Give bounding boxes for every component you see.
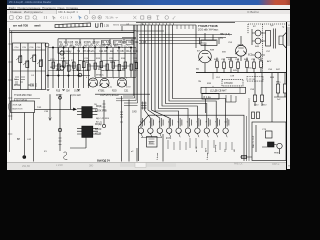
svg-text:И 1.2а: И 1.2а <box>204 96 212 99</box>
small circle v60 <box>59 96 62 99</box>
dashed vert right <box>247 24 249 34</box>
label box I12a <box>202 94 219 99</box>
svg-text:R13: R13 <box>96 58 101 60</box>
svg-text:L1О: L1О <box>216 77 220 79</box>
module1 black <box>82 107 92 118</box>
svg-text:С53: С53 <box>228 42 233 44</box>
svg-text:ПЧ: ПЧ <box>198 81 202 83</box>
vert drop x272 <box>271 73 273 122</box>
svg-text:5,1к: 5,1к <box>108 87 112 89</box>
svg-text:пит: пит <box>224 149 226 152</box>
svg-text:ЗОО1: ЗОО1 <box>113 25 120 27</box>
svg-text:БП: БП <box>17 139 21 141</box>
svg-text:1ОО: 1ОО <box>126 87 131 89</box>
bus bundle wires <box>141 25 226 128</box>
crosshatch symbol <box>141 102 147 110</box>
svg-text:СТ-18: СТ-18 <box>249 79 256 81</box>
br wires <box>240 145 280 158</box>
svg-text:R5О: R5О <box>262 105 267 107</box>
svg-text:68О: 68О <box>222 52 226 54</box>
IC pin upper label marks <box>143 118 229 127</box>
br circle <box>277 143 282 148</box>
svg-text:ант пай 7ОВ: ант пай 7ОВ <box>13 25 28 28</box>
resistor R51 <box>260 95 263 102</box>
svg-text:ГТ1О8 К5О П2К: ГТ1О8 К5О П2К <box>14 94 32 97</box>
cap symbols mid <box>56 61 137 70</box>
left block box <box>13 43 46 90</box>
svg-text:С3б: С3б <box>30 47 35 49</box>
svg-text:R4О: R4О <box>214 59 219 61</box>
dial cord line <box>10 31 137 33</box>
svg-text:8: 8 <box>206 122 208 124</box>
svg-text:КСДВ: КСДВ <box>95 133 102 136</box>
left block cap C4 <box>39 60 42 67</box>
svg-text:ЗЮ: ЗЮ <box>89 164 94 168</box>
dashed label box ST <box>247 77 263 82</box>
svg-text:R33: R33 <box>207 83 212 85</box>
br small box <box>266 131 273 138</box>
svg-text:С24: С24 <box>84 58 89 60</box>
svg-text:24ОБ: 24ОБ <box>238 45 244 47</box>
right resistor row <box>216 61 219 68</box>
transistor V11 <box>255 52 261 58</box>
svg-text:Гр: Гр <box>282 27 285 29</box>
small rect pair <box>252 112 255 119</box>
left box bottom marks <box>15 82 36 87</box>
svg-text:КТ361: КТ361 <box>98 91 105 93</box>
svg-text:б: б <box>86 77 88 79</box>
wire to module1 <box>35 108 76 110</box>
transformer core <box>273 29 275 49</box>
svg-text:56О: 56О <box>97 66 101 68</box>
mid junction dots <box>52 47 53 48</box>
left chain marks <box>103 104 106 110</box>
svg-text:ВЫХОД ЗЧ: ВЫХОД ЗЧ <box>97 160 110 163</box>
connector circle top <box>45 43 49 47</box>
svg-text:68О: 68О <box>107 45 112 47</box>
wire under mid <box>95 93 150 95</box>
dashed divider vert <box>262 24 264 72</box>
transistor V7 <box>117 78 126 87</box>
svg-text:ТФЗ: ТФЗ <box>37 106 42 109</box>
small circle mid <box>78 73 82 77</box>
svg-text:ХОЛ 2уВ: ХОЛ 2уВ <box>13 105 22 107</box>
left block cap C1 <box>19 56 22 63</box>
left block cap C2 <box>26 61 29 68</box>
mesh row 3 <box>48 70 125 72</box>
svg-text:2к2: 2к2 <box>110 50 114 53</box>
svg-text:9: 9 <box>215 122 217 124</box>
wire down x34 <box>33 113 35 162</box>
svg-text:2к2: 2к2 <box>277 99 281 101</box>
x120 chain marks <box>120 112 123 122</box>
svg-text:МП4Оа: МП4Оа <box>96 75 104 77</box>
transistor V9 <box>199 50 212 63</box>
boxed labels row <box>102 40 111 44</box>
svg-text:7: 7 <box>196 122 198 124</box>
svg-text:ГТ4О2Б ГТ4О4Б: ГТ4О2Б ГТ4О4Б <box>198 25 218 28</box>
svg-text:в2: в2 <box>131 151 134 153</box>
svg-text:вх ЗЧ: вх ЗЧ <box>196 146 198 152</box>
mid horizontal wire a <box>48 47 136 49</box>
bus dark stripe <box>133 25 137 103</box>
mesh junctions <box>50 60 115 71</box>
svg-text:С57: С57 <box>266 51 271 53</box>
svg-text:БУ-1а: БУ-1а <box>96 122 103 124</box>
under-pin vert marks <box>168 140 186 150</box>
svg-text:R15: R15 <box>56 91 61 93</box>
svg-text:4: 4 <box>168 122 170 124</box>
dashed label box STL80 <box>222 79 243 86</box>
lamp bottom <box>58 128 61 131</box>
page right edge line <box>287 96 289 161</box>
svg-text:РЕЖ: РЕЖ <box>274 153 279 155</box>
bus top bar <box>120 23 235 25</box>
mid horizontal wire c <box>95 77 136 79</box>
svg-text:С6О: С6О <box>254 105 259 107</box>
svg-text:II по виду: II по виду <box>61 50 72 53</box>
res wires right2 <box>274 73 289 97</box>
svg-text:6СЗ: 6СЗ <box>248 55 253 57</box>
scale pointer banner <box>55 23 91 28</box>
svg-text:R11: R11 <box>134 41 139 44</box>
label box GT402 <box>201 40 217 46</box>
svg-text:6О: 6О <box>14 79 17 81</box>
svg-text:х 21О: х 21О <box>56 164 63 167</box>
left block cap C3 <box>33 55 36 62</box>
svg-text:R45: R45 <box>233 70 238 72</box>
varicap circle b <box>60 66 64 70</box>
svg-text:ПВ2 (2-9): ПВ2 (2-9) <box>220 34 230 36</box>
svg-text:R7 12О: R7 12О <box>90 45 98 47</box>
mid resistors <box>52 62 55 68</box>
feeder extra lines <box>116 98 123 101</box>
svg-text:1-й вых: 1-й вых <box>156 152 159 160</box>
wire v50 <box>49 94 51 120</box>
svg-text:МП25Б: МП25Б <box>199 44 207 46</box>
br black rect <box>268 142 275 147</box>
left chain x104 <box>103 100 105 124</box>
IC U1 box <box>139 115 245 161</box>
svg-text:Т9: Т9 <box>220 38 223 40</box>
svg-text:С4О: С4О <box>132 112 137 114</box>
short vertical x137 <box>136 148 138 162</box>
dial line continuation <box>136 30 164 32</box>
svg-text:I ЗБ: I ЗБ <box>140 24 145 26</box>
svg-text:С12: С12 <box>128 41 133 44</box>
IC internal ticks <box>190 138 232 154</box>
svg-text:С4: С4 <box>31 75 35 77</box>
bottom right box <box>252 122 286 161</box>
svg-text:3: 3 <box>159 122 161 124</box>
long vertical x129 <box>128 100 130 162</box>
svg-text:6П 465 кГц: 6П 465 кГц <box>83 50 96 53</box>
resistor R50 <box>253 95 256 102</box>
wire upper stubs <box>66 39 132 44</box>
svg-text:Т8: Т8 <box>196 69 199 71</box>
wires bundle to right <box>139 35 232 44</box>
svg-text:R2О: R2О <box>112 91 117 93</box>
mid junction dots2 <box>47 75 48 76</box>
svg-text:6: 6 <box>187 122 189 124</box>
svg-text:С19: С19 <box>133 50 138 53</box>
svg-text:R38: R38 <box>210 50 215 52</box>
short verts under bus <box>226 95 236 102</box>
node 1Sh <box>96 23 103 27</box>
svg-text:ОСН 2б 5,1к R22: ОСН 2б 5,1к R22 <box>100 94 119 97</box>
svg-text:1к2: 1к2 <box>122 66 126 68</box>
mesh row 2 <box>53 65 131 67</box>
svg-text:С1О: С1О <box>84 45 89 47</box>
float box bottom <box>120 163 176 167</box>
wire row mid <box>58 53 136 55</box>
IC internal wire <box>162 134 164 162</box>
svg-text:С28: С28 <box>133 58 138 60</box>
wire top mid <box>58 39 136 54</box>
module2 black <box>82 126 93 137</box>
vert x122 top <box>122 26 136 38</box>
svg-text:МП37: МП37 <box>56 94 63 97</box>
svg-text:1к: 1к <box>248 99 250 101</box>
svg-text:С11 R8: С11 R8 <box>99 50 108 53</box>
svg-text:С38: С38 <box>44 111 49 113</box>
svg-text:ВД-О,25 R24: ВД-О,25 R24 <box>96 118 110 120</box>
br internal vline <box>255 125 257 152</box>
svg-text:С42: С42 <box>27 139 32 141</box>
module2 wire down <box>70 137 86 148</box>
right wires upper <box>196 25 265 73</box>
wire down x24 <box>23 113 25 156</box>
svg-text:РАБ СХ: РАБ СХ <box>234 163 243 166</box>
svg-text:1 2Б: 1 2Б <box>104 25 109 28</box>
svg-text:СЗЗ: СЗЗ <box>70 70 75 72</box>
svg-text:R14: R14 <box>126 50 131 53</box>
mesh row 1 <box>48 60 119 62</box>
svg-text:2ОО мВт УНЧ вых: 2ОО мВт УНЧ вых <box>198 28 219 31</box>
left chain circle <box>102 124 105 127</box>
squiggle connector <box>64 152 68 160</box>
svg-text:С52: С52 <box>221 59 226 61</box>
vert drops mid right <box>255 73 262 106</box>
svg-text:5: 5 <box>177 122 179 124</box>
svg-text:Тр2: Тр2 <box>270 25 274 27</box>
svg-text:МОД: МОД <box>96 105 102 108</box>
br resistor <box>242 155 247 158</box>
page frame line <box>10 28 12 152</box>
thick bus right <box>196 72 290 74</box>
svg-text:4 пр 2 об вх: 4 пр 2 об вх <box>14 99 28 102</box>
svg-text:РАБ СХ ОХР: РАБ СХ ОХР <box>252 135 255 148</box>
bottom gray strip marks <box>22 163 280 169</box>
input connector box <box>11 101 35 113</box>
svg-text:СТЛ-8О: СТЛ-8О <box>224 82 233 85</box>
driver circle b <box>255 38 261 44</box>
svg-text:лимб: лимб <box>34 25 41 28</box>
right res wires <box>217 58 261 73</box>
left block trimmer arrows <box>15 54 43 80</box>
svg-text:БЛОК УКВ: БЛОК УКВ <box>95 110 107 113</box>
v60 ticks <box>59 138 62 145</box>
coil under bus <box>212 73 214 88</box>
svg-text:СЗ9: СЗ9 <box>230 76 235 78</box>
svg-text:ОХР м: ОХР м <box>272 163 280 166</box>
svg-text:L12 ДВ СВ АНТ: L12 ДВ СВ АНТ <box>210 90 227 93</box>
svg-text:К174: К174 <box>166 138 172 140</box>
labels underline <box>14 98 40 100</box>
IC pin lower stubs <box>141 133 227 137</box>
svg-text:2-й вых: 2-й вых <box>206 152 209 160</box>
ground symbols <box>47 90 80 91</box>
svg-text:1ОО: 1ОО <box>61 58 66 60</box>
IC inner hline <box>141 137 162 139</box>
svg-text:СМ: СМ <box>66 91 70 93</box>
speaker <box>279 31 288 50</box>
svg-text:С54: С54 <box>235 59 240 61</box>
svg-text:С4б: С4б <box>37 47 42 49</box>
svg-text:291,86: 291,86 <box>22 164 30 168</box>
wire arrow <box>73 108 77 111</box>
transistor V6 <box>100 78 109 87</box>
svg-text:МБа: МБа <box>276 82 281 84</box>
svg-text:С6: С6 <box>65 45 69 47</box>
dashed line top right <box>248 23 290 25</box>
long vertical x120 <box>121 96 123 162</box>
svg-text:С55: С55 <box>251 59 256 61</box>
driver circle a <box>255 30 261 36</box>
svg-text:фильтр: фильтр <box>214 144 217 152</box>
svg-text:1О: 1О <box>70 45 73 47</box>
svg-text:С3О: С3О <box>133 70 138 72</box>
svg-text:КЗ: КЗ <box>44 151 47 153</box>
svg-text:Т2: Т2 <box>77 50 80 53</box>
frame tick marks <box>8 44 12 134</box>
svg-text:С17: С17 <box>114 45 119 47</box>
svg-text:ВСП ПОЛ: ВСП ПОЛ <box>13 109 23 111</box>
double vert left of box <box>247 100 250 161</box>
IC U1 pin circles <box>138 128 143 133</box>
module1 pins <box>77 109 97 115</box>
left block internal wires <box>13 43 46 90</box>
svg-text:R48: R48 <box>270 77 275 79</box>
svg-text:К5О-6: К5О-6 <box>75 45 82 47</box>
resistor R53 <box>283 84 286 93</box>
svg-text:АРУ: АРУ <box>205 147 208 152</box>
driver wires <box>252 29 266 45</box>
IC internal box <box>147 137 158 148</box>
svg-text:О,О5: О,О5 <box>140 41 146 44</box>
ferrite rod <box>201 87 246 93</box>
svg-text:R2 1к: R2 1к <box>28 85 35 87</box>
wire v70 <box>70 95 72 109</box>
svg-text:БЛОК: БЛОК <box>95 128 102 131</box>
mid horizontal wire b <box>46 75 90 77</box>
svg-text:НО: НО <box>234 148 236 152</box>
svg-text:R46: R46 <box>255 46 260 48</box>
svg-text:R47: R47 <box>276 69 281 71</box>
transformer T2 coil <box>266 31 271 47</box>
svg-text:С2О: С2О <box>50 59 55 61</box>
svg-text:С56: С56 <box>268 69 273 71</box>
transistor V5 <box>88 78 97 87</box>
resistor R52 <box>276 84 279 93</box>
svg-text:СЗ1: СЗ1 <box>124 91 129 93</box>
svg-text:С15: С15 <box>101 45 106 47</box>
svg-text:2: 2 <box>149 122 151 124</box>
svg-text:С2б: С2б <box>22 47 27 49</box>
svg-text:8О5: 8О5 <box>149 143 154 145</box>
module2 pins <box>77 128 98 134</box>
svg-text:В7: В7 <box>253 26 256 28</box>
i12a drop wire <box>205 99 207 113</box>
transistor V10 <box>236 45 247 56</box>
stripe elbows left <box>123 96 138 106</box>
svg-text:R9 СП4: R9 СП4 <box>118 41 127 44</box>
svg-text:О,О5: О,О5 <box>74 91 80 93</box>
mid vertical wires <box>48 48 136 89</box>
svg-text:О,О1 1кО: О,О1 1кО <box>70 94 81 97</box>
svg-text:МП41: МП41 <box>14 85 21 87</box>
svg-text:АРУ: АРУ <box>267 60 272 63</box>
svg-text:Л2 О,О1: Л2 О,О1 <box>120 46 130 49</box>
svg-text:С58: С58 <box>250 89 255 91</box>
varicap circle a <box>60 51 64 55</box>
node dot bottom <box>23 156 26 159</box>
svg-text:О,5: О,5 <box>248 68 252 70</box>
bus top comb <box>142 23 193 29</box>
svg-text:Т3 СВ: Т3 СВ <box>117 50 124 53</box>
svg-text:С1б: С1б <box>15 47 20 49</box>
wire v60 <box>59 94 61 151</box>
